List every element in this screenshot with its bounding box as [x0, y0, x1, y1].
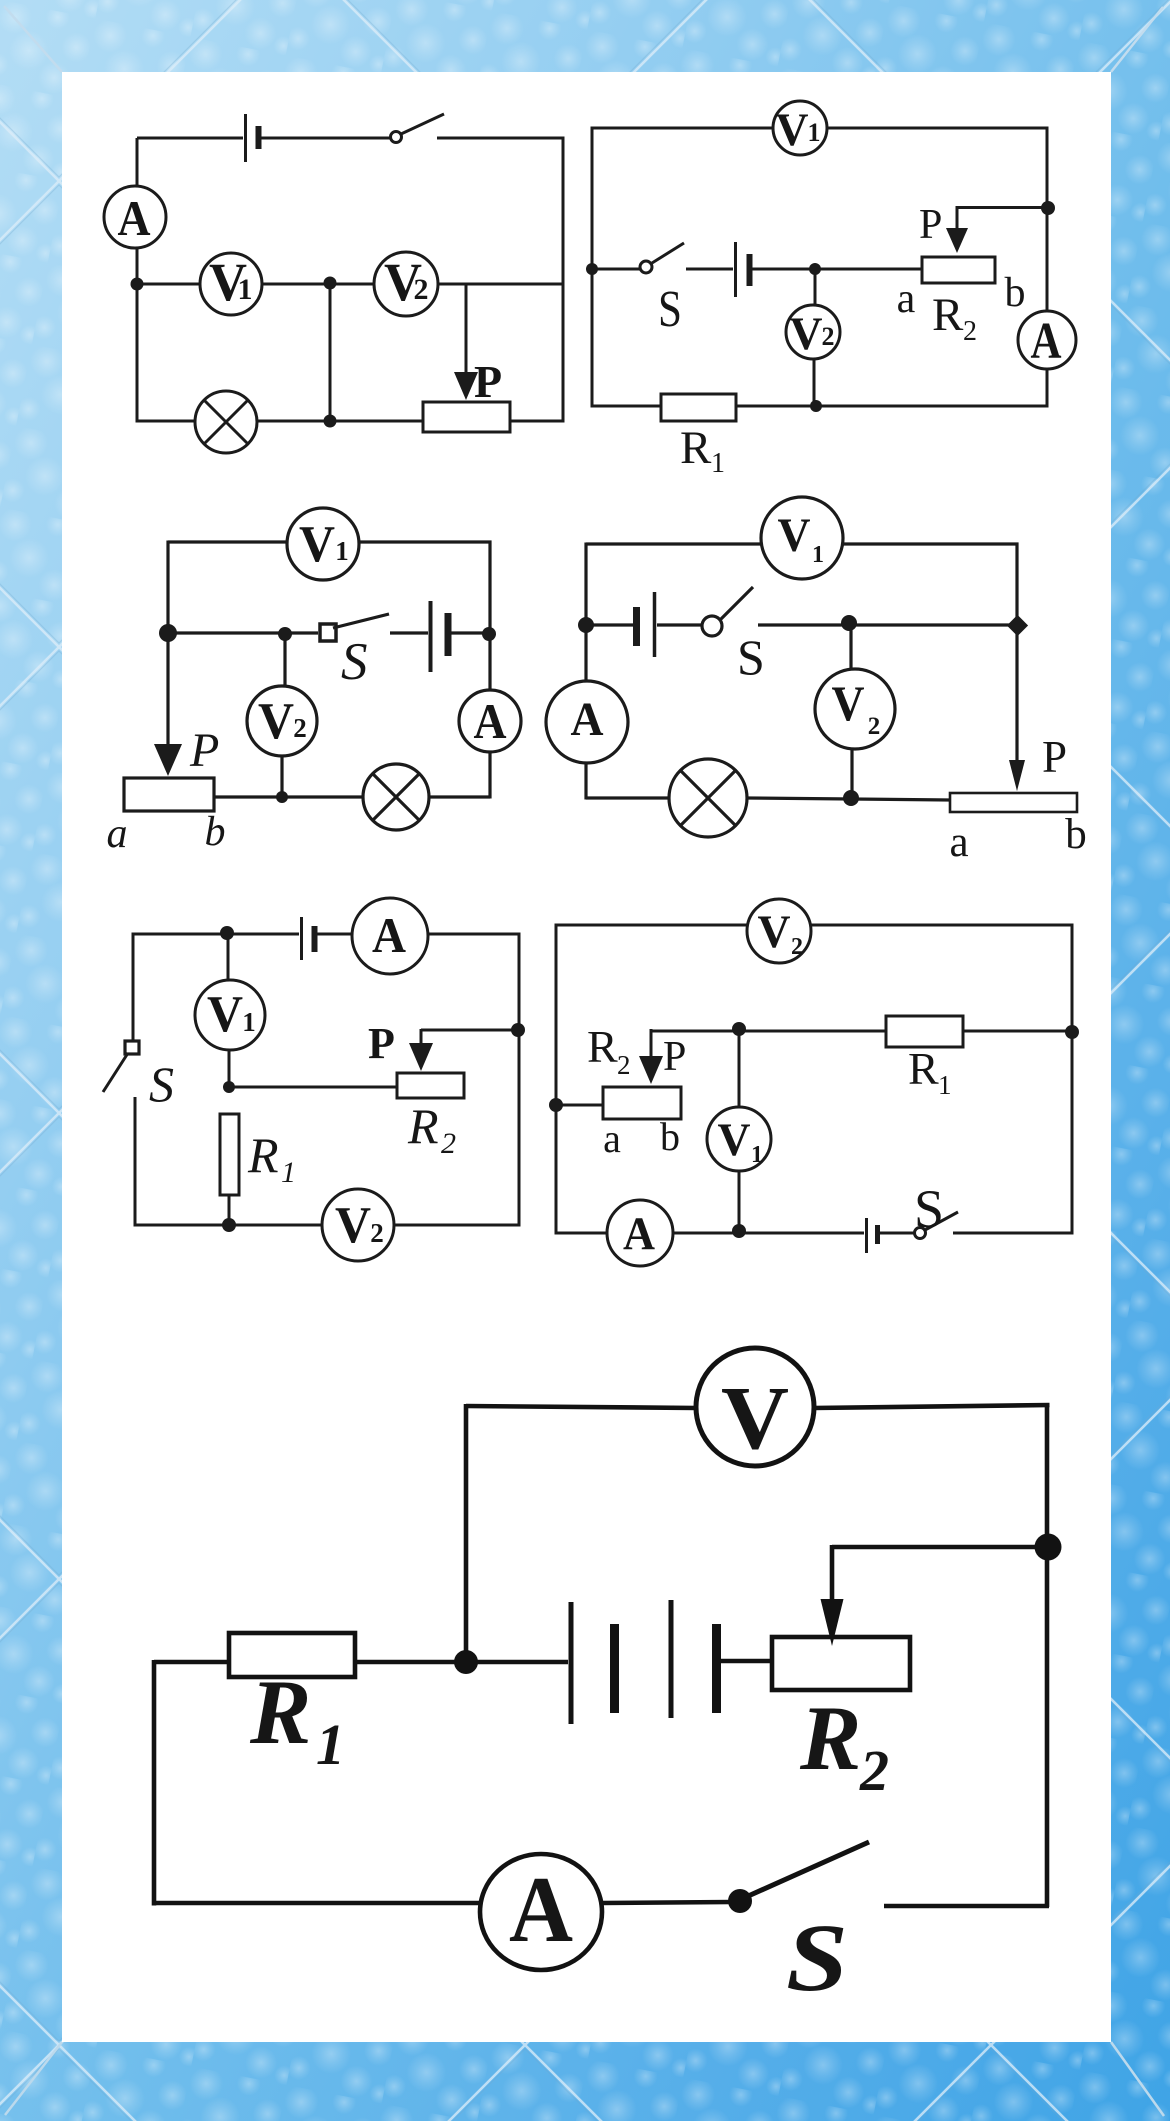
wire: C1 left vertical lower: [136, 248, 139, 423]
voltmeter V1 (C3) circle: [287, 508, 359, 580]
lamp L3 cross: [373, 774, 419, 820]
rheostat R2 (C2) wiper arrowhead: [946, 228, 968, 253]
ammeter A (C3) circle: [459, 690, 521, 752]
svg-text:1: 1: [808, 118, 821, 147]
switch S (C5) lever: [103, 1053, 128, 1092]
junction node C3 V2-top: [278, 627, 292, 641]
voltmeter V2 (C6) circle: [747, 899, 811, 963]
switch S (C3) pivot square: [320, 624, 336, 641]
junction node C5 V1-bottom: [223, 1081, 235, 1093]
svg-text:b: b: [660, 1114, 680, 1159]
junction node C4 left-mid: [578, 617, 594, 633]
svg-text:b: b: [1065, 811, 1087, 858]
junction node C4 right-mid: [1007, 615, 1028, 636]
rheostat R2 (C5) wiper arrowhead: [409, 1043, 433, 1071]
wire: C3 left vertical: [166, 541, 169, 635]
wire: C2 V2 branch lower: [813, 359, 816, 406]
voltmeter V2 (C4) circle: [815, 669, 895, 749]
svg-text:R: R: [587, 1021, 618, 1072]
junction node C5 top: [220, 926, 234, 940]
rheostat P (C3) box: [124, 778, 214, 811]
ammeter A (C5) circle: [352, 898, 428, 974]
battery cell C3: short thick plate: [445, 613, 452, 656]
wire: C1 bottom seg1: [137, 420, 196, 423]
svg-text:S: S: [737, 629, 765, 685]
wire: C3 row seg1: [168, 631, 318, 634]
resistor R1 (C6) box: [886, 1016, 963, 1047]
junction node C2 bottom: [810, 400, 822, 412]
switch S (C6) lever: [925, 1212, 958, 1230]
wire: C3 V2 branch upper: [283, 633, 286, 686]
wire: C4 bottom seg2: [747, 798, 950, 800]
svg-text:V: V: [778, 509, 811, 562]
battery C7 cell1 long plate: [569, 1602, 574, 1724]
wire: C1 wiper vertical: [465, 284, 468, 380]
svg-text:2: 2: [868, 713, 881, 740]
rheostat P (C4) thin box: [950, 793, 1077, 812]
svg-text:1: 1: [281, 1156, 296, 1189]
rheostat P (C1) wiper arrowhead: [454, 372, 478, 400]
wire: C5 wiper vertical: [420, 1029, 423, 1048]
svg-text:1: 1: [242, 1007, 256, 1037]
ammeter A (C6) circle: [607, 1200, 673, 1266]
rheostat P (C1) box: [423, 402, 510, 432]
junction node C5 bottom: [222, 1218, 236, 1232]
svg-text:R: R: [407, 1098, 439, 1154]
wire: C6 mid row seg2: [963, 1030, 1072, 1033]
wire: C6 V1 branch lower: [738, 1171, 741, 1233]
wire: C3 wiper vertical: [166, 634, 169, 750]
wire: C4 mid row seg1: [586, 623, 633, 626]
junction node C5 wiper-right: [511, 1023, 525, 1037]
wire: C4 bottom seg1: [586, 796, 669, 799]
wire: C1 left vertical upper: [136, 138, 139, 186]
resistor R1 (C5) vertical box: [220, 1114, 239, 1195]
voltmeter V (C7) circle: [696, 1348, 814, 1466]
wire: C2 mid row seg2: [686, 268, 733, 271]
svg-text:V: V: [776, 104, 809, 156]
wire: C1 middle vertical branch: [329, 284, 332, 421]
lamp L1 cross: [205, 401, 248, 444]
svg-text:S: S: [786, 1904, 848, 2011]
wire: C4 V2 branch lower: [850, 749, 853, 799]
wire: C7 wiper vertical: [830, 1545, 835, 1606]
battery cell C4: long plate: [653, 592, 657, 657]
wire: C4 right vertical: [1015, 543, 1018, 761]
wire: C1 row2 seg3: [438, 283, 563, 286]
wire: C7 top seg2: [813, 1405, 1050, 1408]
junction node C7 R1-right: [454, 1650, 478, 1674]
rheostat R2 (C6) wiper arrowhead: [639, 1056, 663, 1084]
wire: C2 bottom seg2: [736, 405, 1049, 408]
junction node C3 left-row: [159, 624, 177, 642]
rheostat P (C4) wiper arrowhead (narrow): [1009, 760, 1025, 791]
lamp L3 circle: [363, 764, 429, 830]
wire: C5 wiper horizontal: [421, 1029, 519, 1032]
battery cell C2: short thick plate: [747, 254, 753, 286]
svg-text:S: S: [341, 633, 368, 691]
rheostat R2 (C5) box: [397, 1073, 464, 1098]
wire: C3 right vertical lower: [488, 752, 491, 799]
svg-text:2: 2: [617, 1050, 631, 1080]
wire: C2 wiper vertical: [956, 206, 959, 230]
corner mitre line top-left: [4, 6, 62, 72]
wire: C2 bottom seg1: [592, 405, 661, 408]
corner mitre line bottom-right: [1111, 2042, 1164, 2116]
wire: C3 right vertical upper: [488, 541, 491, 691]
junction node C7 switch pivot: [728, 1889, 752, 1913]
voltmeter V2 (C1) circle: [374, 252, 438, 316]
junction node C1 left: [131, 278, 144, 291]
wire: C5 bottom seg2: [394, 1224, 519, 1227]
wire: C1 row2 seg2: [262, 283, 374, 286]
wire: C5 top seg3: [428, 933, 521, 936]
switch S (C3) lever: [333, 614, 389, 628]
switch S (C2) lever: [652, 243, 684, 263]
wire: C6 bottom seg3: [880, 1232, 914, 1235]
battery cell C5: long plate: [300, 917, 303, 960]
svg-text:A: A: [623, 1208, 655, 1260]
wire: C5 left vertical upper: [132, 933, 135, 1041]
wire: C3 top seg1: [168, 540, 288, 543]
wire: C3 row seg3: [451, 631, 490, 634]
svg-text:P: P: [189, 724, 219, 777]
wire: C6 mid row seg1: [651, 1030, 886, 1033]
wire: C4 left vertical lower: [584, 763, 587, 800]
switch S (C2) pivot circle: [640, 261, 652, 273]
svg-text:1: 1: [938, 1070, 952, 1100]
svg-text:R: R: [249, 1661, 311, 1763]
junction node C2 left: [586, 263, 598, 275]
svg-text:2: 2: [414, 273, 429, 306]
junction node C6 V1-bottom: [732, 1224, 746, 1238]
battery cell C5: short thick plate: [312, 926, 318, 952]
svg-text:b: b: [205, 809, 226, 855]
svg-text:2: 2: [963, 316, 977, 347]
ammeter A1 circle: [104, 186, 166, 248]
svg-text:b: b: [1005, 270, 1026, 316]
wire: C1 bottom seg2: [257, 420, 423, 423]
wire: C4 V2 branch upper: [849, 625, 852, 669]
wire: C7 wiper horizontal: [832, 1545, 1048, 1550]
svg-text:a: a: [107, 811, 128, 857]
voltmeter V1 (C2) circle: [773, 101, 827, 155]
wire: C6 V1 branch upper: [738, 1031, 741, 1107]
svg-text:V: V: [335, 1197, 371, 1254]
rheostat R2 (C7) wiper arrowhead (narrow): [821, 1599, 844, 1646]
battery cell C4: short thick plate: [633, 607, 640, 646]
svg-text:A: A: [571, 693, 604, 746]
wire: C6 bottom seg1: [556, 1232, 607, 1235]
svg-text:R: R: [908, 1043, 939, 1094]
switch C1: pivot circle: [391, 132, 402, 143]
switch S (C4) lever: [720, 587, 753, 620]
junction node C6 left: [549, 1098, 563, 1112]
lamp L4 circle: [669, 759, 747, 837]
wire: C2 right vertical upper: [1046, 127, 1049, 312]
wire: C7 right vertical: [1045, 1403, 1050, 1907]
svg-text:A: A: [509, 1858, 573, 1962]
svg-text:V: V: [721, 1369, 789, 1468]
svg-text:2: 2: [859, 1738, 889, 1803]
wire: C2 right vertical lower: [1046, 369, 1049, 406]
wire: C2 V2 branch upper: [814, 269, 817, 305]
svg-text:R: R: [932, 289, 964, 341]
junction node C7 right wiper: [1035, 1534, 1062, 1561]
wire: C2 wiper horizontal from node: [957, 206, 1048, 209]
wire: C7 bottom seg1: [154, 1901, 484, 1906]
svg-text:2: 2: [370, 1218, 384, 1248]
wire: C7 top seg1: [466, 1406, 697, 1408]
svg-text:V: V: [299, 516, 335, 573]
resistor R1 (C2) box: [661, 394, 736, 421]
lamp L4 cross: [681, 771, 735, 825]
battery cell C1: long plate: [244, 114, 247, 162]
wire: C7 mid seg1: [154, 1660, 231, 1665]
wire: C3 bottom seg1: [214, 795, 363, 798]
wire: C7 V-branch vertical: [464, 1404, 469, 1662]
junction node C6 V1-top: [732, 1022, 746, 1036]
battery cell C3: long plate: [429, 601, 433, 672]
junction node C2 battery-right: [809, 263, 821, 275]
wire: C1 top mid segment: [261, 137, 391, 140]
svg-text:A: A: [118, 190, 151, 246]
battery cell C6: long plate: [865, 1218, 868, 1253]
wire: C1 row2 seg1: [137, 283, 200, 286]
wire: C6 top seg1: [556, 924, 747, 927]
wire: C2 mid row seg3: [752, 268, 922, 271]
battery C7 cell2 long plate: [669, 1600, 674, 1718]
svg-text:R: R: [247, 1127, 279, 1183]
wire: C6 left stub to rheostat: [556, 1104, 603, 1107]
voltmeter V1 (C6) circle: [707, 1107, 771, 1171]
svg-text:A: A: [1031, 313, 1062, 370]
wire: C7 bottom seg2: [602, 1902, 732, 1903]
wire: C5 top seg1: [133, 933, 299, 936]
svg-text:2: 2: [791, 934, 803, 960]
wire: C7 left vertical: [152, 1660, 157, 1906]
svg-text:2: 2: [441, 1127, 456, 1160]
wire: C4 mid row seg3: [758, 623, 1017, 626]
wire: C4 top seg1: [586, 542, 762, 545]
switch C1: lever: [401, 114, 444, 134]
wire: C6 bottom seg4: [953, 1232, 1072, 1235]
wire: C5 left vertical lower: [134, 1097, 137, 1227]
wire: C5 V1 branch upper: [227, 934, 230, 980]
wire: C7 mid seg3: [721, 1659, 772, 1664]
junction node C4 V2-top: [841, 615, 857, 631]
junction node C1 mid-row: [324, 277, 337, 290]
wire: C1 top right segment: [437, 137, 565, 140]
wire: C2 top seg2: [827, 127, 1049, 130]
voltmeter V2 (C5) circle: [322, 1189, 394, 1261]
rheostat P (C3) wiper arrowhead: [154, 744, 182, 776]
rheostat R2 (C2) box: [922, 257, 995, 283]
corner mitre line bottom-left: [5, 2042, 62, 2115]
wire: C6 bottom seg2: [673, 1232, 864, 1235]
svg-text:a: a: [603, 1116, 621, 1161]
voltmeter V2 (C3) circle: [247, 686, 317, 756]
svg-text:V: V: [207, 986, 243, 1043]
svg-text:A: A: [372, 907, 406, 963]
svg-text:S: S: [658, 281, 682, 338]
wire: C6 left vertical: [555, 924, 558, 1235]
wire: C1 bottom seg3: [510, 420, 563, 423]
ammeter A (C4) circle: [546, 681, 628, 763]
junction node C1 mid-bottom: [324, 415, 337, 428]
svg-text:V: V: [832, 675, 865, 731]
svg-text:V: V: [790, 308, 823, 360]
wire: C1 top-left segment: [137, 137, 243, 140]
svg-text:V: V: [718, 1114, 751, 1166]
svg-text:P: P: [368, 1019, 395, 1068]
voltmeter V2 (C2) circle: [786, 305, 840, 359]
ammeter A (C2) circle: [1018, 311, 1076, 369]
svg-text:S: S: [914, 1179, 944, 1239]
wire: C2 top seg1: [592, 127, 773, 130]
lamp L1 circle: [195, 391, 257, 453]
wire: C5 bottom seg1: [135, 1224, 322, 1227]
switch S (C6) pivot circle: [915, 1228, 926, 1239]
battery C7 cell1 short thick plate: [610, 1624, 619, 1713]
svg-text:P: P: [474, 356, 502, 407]
svg-text:P: P: [663, 1034, 686, 1080]
wire: C5 V1 branch lower: [228, 1050, 231, 1087]
wire: C7 bottom seg3: [884, 1904, 1049, 1909]
wire: C7 mid seg2: [355, 1660, 568, 1665]
wire: C3 row seg2: [390, 631, 428, 634]
svg-text:a: a: [897, 276, 916, 322]
junction node C6 right: [1065, 1025, 1079, 1039]
svg-text:1: 1: [238, 273, 253, 306]
junction node C3 battery-right: [482, 627, 496, 641]
wire: C6 top seg2: [811, 924, 1074, 927]
svg-text:R: R: [680, 422, 712, 474]
wire: C6 wiper vertical: [650, 1029, 653, 1060]
wire: C5 top seg2: [317, 933, 352, 936]
switch S (C5) pivot square: [125, 1041, 139, 1054]
voltmeter V1 (C5) circle: [195, 980, 265, 1050]
voltmeter V1 (C1) circle: [200, 253, 262, 315]
wire: C5 row to rheostat: [229, 1086, 397, 1089]
svg-text:a: a: [949, 819, 968, 866]
rheostat R2 (C7) box: [772, 1637, 910, 1690]
wire: C4 top seg2: [842, 542, 1019, 545]
svg-text:V: V: [758, 906, 791, 958]
svg-text:R: R: [799, 1687, 861, 1789]
wire: C2 mid row seg1: [592, 268, 640, 271]
voltmeter V1 (C4) circle: [761, 497, 843, 579]
junction node C4 bottom: [843, 790, 859, 806]
wire: C3 top seg2: [359, 540, 492, 543]
switch S (C4) pivot circle: [702, 616, 722, 636]
wire: C5 R1 bottom stub: [228, 1195, 231, 1225]
resistor R1 (C7) box: [229, 1633, 355, 1677]
svg-text:A: A: [474, 693, 507, 749]
battery C7 cell2 short thick plate: [712, 1624, 721, 1713]
ammeter A (C7) circle: [480, 1854, 602, 1970]
wire: C4 left vertical upper: [584, 543, 587, 682]
battery cell C6: short thick plate: [875, 1225, 880, 1244]
wire: C3 bottom seg2: [429, 795, 490, 798]
battery cell C2: long plate: [734, 242, 737, 297]
svg-text:2: 2: [293, 713, 307, 743]
svg-text:1: 1: [316, 1712, 345, 1777]
rheostat R2 (C6) box: [603, 1087, 681, 1119]
corner mitre line top-right: [1111, 7, 1163, 72]
svg-text:1: 1: [812, 542, 824, 568]
svg-text:S: S: [149, 1056, 174, 1112]
wire: C1 right vertical: [562, 137, 565, 423]
junction node C3 V2-bottom: [276, 791, 288, 803]
junction node C2 right wiper: [1041, 201, 1055, 215]
svg-text:V: V: [258, 693, 294, 750]
svg-text:2: 2: [822, 322, 835, 351]
svg-text:1: 1: [335, 536, 349, 566]
wire: C6 right vertical: [1071, 924, 1074, 1235]
wire: C3 V2 branch lower: [280, 756, 283, 797]
wire: C2 left vertical: [591, 127, 594, 408]
battery cell C1: short thick plate: [256, 126, 262, 149]
svg-text:1: 1: [751, 1142, 763, 1168]
svg-text:P: P: [1042, 732, 1067, 782]
svg-text:1: 1: [711, 448, 725, 479]
wire: C5 right vertical: [518, 933, 521, 1227]
switch S (C7) lever: [746, 1842, 869, 1897]
wire: C4 mid row seg2: [657, 623, 702, 626]
svg-text:P: P: [919, 202, 942, 248]
